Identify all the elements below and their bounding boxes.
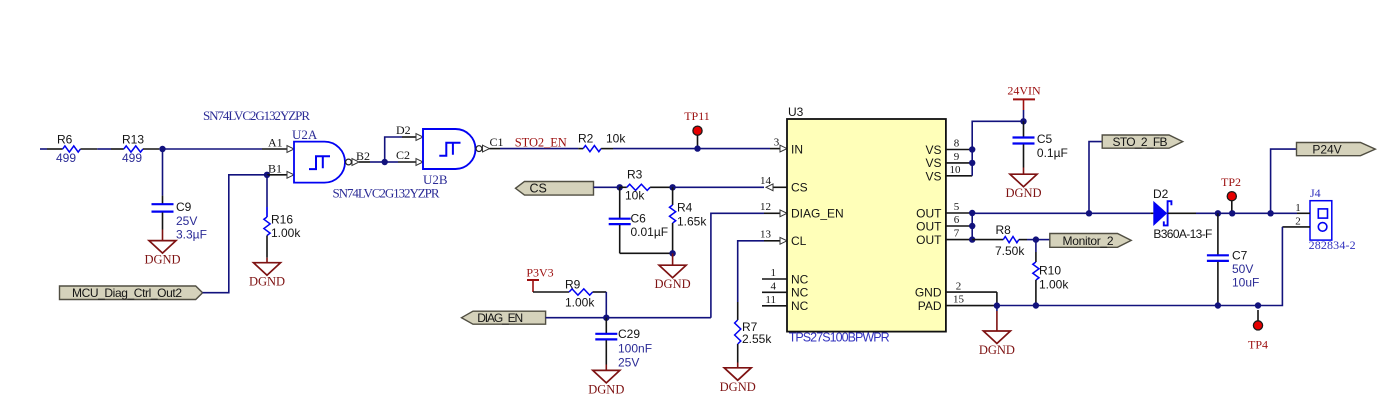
svg-text:C6: C6 xyxy=(631,211,647,225)
wire C1 to R2 xyxy=(500,148,578,150)
svg-text:DGND: DGND xyxy=(249,275,285,289)
svg-text:C2: C2 xyxy=(396,148,410,162)
svg-text:1.00k: 1.00k xyxy=(271,226,301,240)
wire DIAG_EN rail right xyxy=(606,317,711,319)
wire GND to PAD xyxy=(996,292,998,306)
svg-text:IN: IN xyxy=(791,142,803,156)
svg-text:CL: CL xyxy=(791,234,807,248)
svg-text:OUT: OUT xyxy=(916,219,942,233)
port DIAG_EN xyxy=(462,311,546,324)
svg-text:3: 3 xyxy=(774,137,780,149)
svg-text:100nF: 100nF xyxy=(618,342,652,356)
test point TP4 xyxy=(1257,310,1259,321)
junction C6/R4 gnd xyxy=(669,250,675,256)
wire C6 bottom xyxy=(620,252,673,254)
resistor R9 xyxy=(533,291,569,293)
svg-text:NC: NC xyxy=(791,286,809,300)
pin 13 lead CL xyxy=(764,240,780,242)
svg-text:GND: GND xyxy=(915,285,942,299)
svg-text:25V: 25V xyxy=(618,356,639,370)
svg-text:SN74LVC2G132YZPR: SN74LVC2G132YZPR xyxy=(333,185,440,200)
junction OUT7 xyxy=(969,236,975,242)
svg-text:PAD: PAD xyxy=(918,299,942,313)
svg-text:CS: CS xyxy=(791,181,808,195)
svg-text:C1: C1 xyxy=(490,135,504,149)
pin 15 lead PAD xyxy=(946,305,997,307)
svg-text:10k: 10k xyxy=(606,132,626,146)
svg-text:U3: U3 xyxy=(788,105,804,119)
svg-text:B360A-13-F: B360A-13-F xyxy=(1153,227,1212,241)
svg-text:24VIN: 24VIN xyxy=(1007,83,1041,97)
junction GND rail xyxy=(994,302,1000,308)
svg-text:VS: VS xyxy=(925,170,941,184)
svg-text:6: 6 xyxy=(954,214,960,226)
svg-text:9: 9 xyxy=(954,151,960,163)
junction OUT6 xyxy=(969,223,975,229)
wire J4 pin2 return xyxy=(997,227,1283,306)
pin 1 NC lead xyxy=(762,278,787,280)
capacitor C29 xyxy=(605,318,607,333)
junction CS/C6 xyxy=(617,184,623,190)
svg-text:P24V: P24V xyxy=(1312,143,1341,157)
port Monitor_2 xyxy=(1050,234,1131,248)
junction 24VIN/C5 xyxy=(1020,118,1026,124)
svg-text:STO_2_FB: STO_2_FB xyxy=(1113,135,1168,149)
resistor R10 xyxy=(1035,240,1037,252)
junction C7 bottom xyxy=(1215,302,1221,308)
wire B2 xyxy=(370,161,385,163)
svg-text:3.3µF: 3.3µF xyxy=(176,228,207,242)
capacitor C6 xyxy=(619,187,621,218)
ground DGND under C5 xyxy=(1010,174,1037,187)
ground DGND under R7 xyxy=(724,368,751,381)
test point TP11 xyxy=(697,136,699,147)
svg-text:1: 1 xyxy=(771,267,777,279)
svg-text:SN74LVC2G132YZPR: SN74LVC2G132YZPR xyxy=(203,108,310,123)
svg-text:2: 2 xyxy=(956,281,962,293)
output bubble U2A xyxy=(346,159,352,165)
svg-text:1.00k: 1.00k xyxy=(565,295,595,309)
svg-text:TP2: TP2 xyxy=(1221,175,1241,189)
svg-text:R4: R4 xyxy=(677,201,693,215)
junction node A1/C9 xyxy=(159,146,165,152)
pin 12 lead DIAG_EN xyxy=(764,212,780,214)
junction R3/R4 xyxy=(669,184,675,190)
pin 5 lead OUT xyxy=(946,212,972,214)
svg-text:5: 5 xyxy=(954,201,960,213)
svg-text:A1: A1 xyxy=(268,136,283,150)
svg-text:2.55k: 2.55k xyxy=(742,332,772,346)
wire to STO_2_FB xyxy=(1089,142,1102,214)
op-amp U3 IC body xyxy=(787,119,946,332)
svg-text:TPS27S100BPWPR: TPS27S100BPWPR xyxy=(789,330,890,344)
svg-text:J4: J4 xyxy=(1310,186,1321,200)
svg-text:11: 11 xyxy=(765,294,776,306)
wire R3 to CS pin xyxy=(673,186,764,188)
svg-text:7: 7 xyxy=(954,228,960,240)
port MCU_Diag_Ctrl_Out2 xyxy=(60,286,203,300)
pin 7 lead OUT xyxy=(946,239,972,241)
svg-text:DIAG_EN: DIAG_EN xyxy=(791,207,844,221)
junction B2 xyxy=(382,159,388,165)
resistor R7 xyxy=(735,320,741,344)
pin 3 lead IN xyxy=(770,148,780,150)
svg-text:1.65k: 1.65k xyxy=(677,214,707,228)
ground DGND under R16 xyxy=(254,263,281,276)
test point TP2 xyxy=(1231,201,1233,211)
junction STO_2_FB xyxy=(1086,210,1092,216)
svg-text:1.00k: 1.00k xyxy=(1039,277,1069,291)
svg-text:B2: B2 xyxy=(356,149,370,163)
svg-text:TP11: TP11 xyxy=(684,109,710,123)
wire CS to R3 xyxy=(594,186,618,188)
pin 6 lead OUT xyxy=(946,225,972,227)
svg-text:STO2_EN: STO2_EN xyxy=(515,135,567,149)
pin 9 lead VS xyxy=(946,162,972,164)
svg-text:OUT: OUT xyxy=(916,233,942,247)
wire VS bus xyxy=(972,121,1023,176)
svg-text:R9: R9 xyxy=(565,277,581,291)
pin 10 lead VS xyxy=(946,175,972,177)
svg-text:0.01µF: 0.01µF xyxy=(631,225,669,239)
pin 8 lead VS xyxy=(946,149,972,151)
port CS xyxy=(516,182,594,196)
svg-text:DGND: DGND xyxy=(655,277,691,291)
svg-text:Monitor_2: Monitor_2 xyxy=(1063,234,1114,248)
svg-text:1: 1 xyxy=(1295,202,1301,214)
svg-text:499: 499 xyxy=(56,151,76,165)
wire CL to pin 13 xyxy=(738,241,764,302)
wire MCU port to B1 xyxy=(203,175,265,293)
junction TP2 xyxy=(1229,210,1235,216)
svg-text:8: 8 xyxy=(954,138,960,150)
wire R6-R13 xyxy=(97,148,111,150)
port STO_2_FB xyxy=(1102,135,1183,148)
svg-text:R10: R10 xyxy=(1039,264,1061,278)
svg-text:10uF: 10uF xyxy=(1232,275,1259,289)
svg-text:MCU_Diag_Ctrl_Out2: MCU_Diag_Ctrl_Out2 xyxy=(72,286,182,300)
pin 2 lead GND xyxy=(946,291,997,293)
resistor R2 xyxy=(583,146,601,152)
capacitor C9 xyxy=(162,196,164,204)
pin 2 lead J4 xyxy=(1282,226,1310,228)
svg-text:12: 12 xyxy=(760,201,771,213)
junction R10 bottom xyxy=(1033,302,1039,308)
svg-text:282834-2: 282834-2 xyxy=(1309,238,1356,252)
svg-text:10k: 10k xyxy=(625,189,645,203)
svg-text:NC: NC xyxy=(791,272,809,286)
svg-text:7.50k: 7.50k xyxy=(995,244,1025,258)
svg-text:2: 2 xyxy=(1295,215,1301,227)
resistor R8 xyxy=(972,239,1003,241)
wire R7 top lead xyxy=(737,302,739,320)
svg-text:R13: R13 xyxy=(122,133,144,147)
pin A1 lead xyxy=(262,148,287,150)
wire input stub xyxy=(40,148,47,150)
op-amp U2B nand gate xyxy=(423,129,475,169)
wire OUT bus xyxy=(971,213,973,240)
pin B1 lead xyxy=(267,174,287,176)
wire down to C9 xyxy=(162,149,164,196)
svg-text:DGND: DGND xyxy=(720,380,756,394)
svg-text:R3: R3 xyxy=(627,168,643,182)
junction VS8 xyxy=(969,146,975,152)
svg-text:NC: NC xyxy=(791,299,809,313)
svg-text:D2: D2 xyxy=(1153,187,1169,201)
output bubble U2B xyxy=(476,146,482,152)
svg-text:R6: R6 xyxy=(57,133,73,147)
svg-text:R2: R2 xyxy=(578,132,594,146)
resistor R16 xyxy=(266,175,268,207)
junction VS9 xyxy=(969,160,975,166)
pin D2 lead xyxy=(402,136,416,138)
wire to P24V xyxy=(1271,149,1297,213)
diode D2 xyxy=(1150,212,1153,214)
wire DIAG_EN to pin 12 xyxy=(711,213,764,317)
svg-text:U2A: U2A xyxy=(292,127,318,142)
wire R9 down xyxy=(605,292,607,318)
junction OUT5 xyxy=(969,210,975,216)
pin 14 lead CS xyxy=(773,186,787,188)
svg-text:C9: C9 xyxy=(176,200,192,214)
ground DGND under C29 xyxy=(593,370,620,383)
junction P24V xyxy=(1267,210,1273,216)
svg-text:P3V3: P3V3 xyxy=(526,266,553,280)
svg-text:DGND: DGND xyxy=(144,253,180,267)
svg-text:15: 15 xyxy=(953,294,965,306)
pin C2 lead xyxy=(385,161,398,163)
svg-text:R16: R16 xyxy=(271,213,293,227)
svg-text:DGND: DGND xyxy=(979,343,1015,357)
svg-text:DGND: DGND xyxy=(588,382,624,396)
wire R2 to IN xyxy=(613,148,770,150)
ground DGND under C9 xyxy=(149,241,176,254)
svg-text:10: 10 xyxy=(950,164,962,176)
op-amp U2A nand gate xyxy=(294,142,345,183)
wire to A1 xyxy=(163,148,263,150)
junction TP11 xyxy=(694,145,700,151)
connector J4 xyxy=(1310,201,1332,240)
junction DIAG_EN/C29 xyxy=(603,315,609,321)
test point TP11 circle xyxy=(693,126,702,135)
wire to Monitor_2 port xyxy=(1036,239,1050,241)
capacitor C7 xyxy=(1217,213,1219,254)
resistor R13 xyxy=(111,148,124,150)
svg-text:VS: VS xyxy=(925,156,941,170)
svg-text:499: 499 xyxy=(122,151,142,165)
svg-text:D2: D2 xyxy=(396,123,411,137)
svg-text:DIAG_EN: DIAG_EN xyxy=(477,311,523,325)
svg-text:13: 13 xyxy=(760,229,772,241)
wire B2 to D2 xyxy=(385,137,402,162)
svg-text:TP4: TP4 xyxy=(1248,338,1268,352)
resistor R6 xyxy=(47,148,63,150)
svg-text:4: 4 xyxy=(771,280,777,292)
capacitor C5 xyxy=(1023,121,1025,137)
svg-text:OUT: OUT xyxy=(916,206,942,220)
svg-text:DGND: DGND xyxy=(1005,186,1041,200)
test point TP2 circle xyxy=(1227,192,1236,201)
wire OUT rail xyxy=(972,212,1150,214)
svg-text:C29: C29 xyxy=(618,327,640,341)
pin 11 NC lead xyxy=(762,305,787,307)
junction Monitor_2/R10 xyxy=(1033,236,1039,242)
svg-text:CS: CS xyxy=(530,182,547,196)
svg-text:25V: 25V xyxy=(176,214,197,228)
svg-text:14: 14 xyxy=(760,175,772,187)
junction TP4 xyxy=(1255,302,1261,308)
resistor R4 xyxy=(672,187,674,205)
svg-text:0.1µF: 0.1µF xyxy=(1037,146,1068,160)
wire diode to J4 xyxy=(1196,212,1297,214)
junction C7 top xyxy=(1215,210,1221,216)
ground DGND under R4 xyxy=(659,265,686,278)
wire R8 to Monitor xyxy=(1027,239,1036,241)
pin 1 lead J4 xyxy=(1297,212,1310,214)
wire DIAG_EN rail xyxy=(546,317,607,319)
resistor R3 xyxy=(620,186,627,188)
svg-text:C5: C5 xyxy=(1037,132,1053,146)
svg-text:C7: C7 xyxy=(1232,249,1248,263)
junction B1/R16 xyxy=(264,172,270,178)
svg-text:50V: 50V xyxy=(1232,262,1253,276)
svg-text:B1: B1 xyxy=(268,161,282,175)
pin 4 NC lead xyxy=(762,291,787,293)
port P24V xyxy=(1297,143,1376,156)
test point TP4 circle xyxy=(1253,321,1262,330)
ground DGND under U3 xyxy=(983,331,1010,344)
svg-text:VS: VS xyxy=(925,143,941,157)
svg-text:R8: R8 xyxy=(996,223,1012,237)
